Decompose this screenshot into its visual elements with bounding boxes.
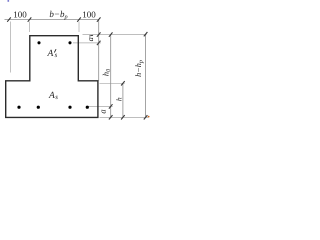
svg-text:100: 100 (13, 9, 27, 19)
svg-text:s: s (55, 52, 58, 59)
svg-text:A: A (48, 91, 55, 101)
svg-text:A: A (47, 49, 54, 59)
svg-text:100: 100 (82, 9, 96, 19)
svg-text:h: h (115, 97, 124, 101)
svg-text:s: s (55, 94, 58, 101)
svg-text:a: a (97, 109, 107, 113)
svg-text:a: a (85, 37, 95, 41)
